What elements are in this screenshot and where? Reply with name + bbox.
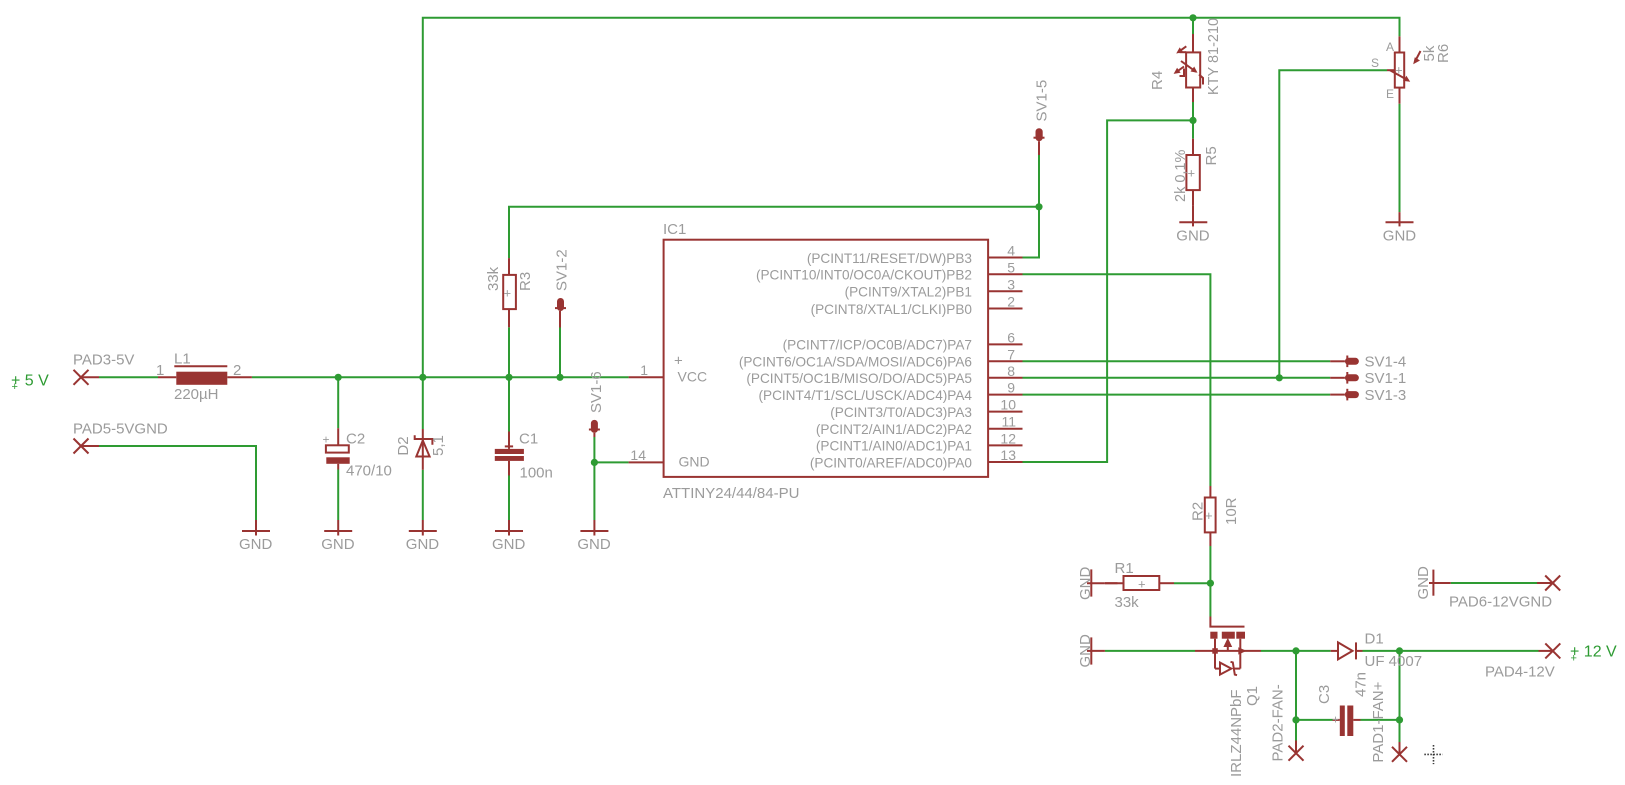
node gate junction [1207, 580, 1214, 587]
wire R4 top lead [1192, 18, 1194, 34]
svg-text:GND: GND [1077, 567, 1094, 601]
svg-text:C2: C2 [346, 431, 365, 448]
svg-text:SV1-4: SV1-4 [1365, 354, 1407, 371]
wire top +5V riser and top rail [423, 18, 1400, 378]
transistor Q1 IRLZ44NPbF n-mosfet [1195, 617, 1261, 676]
wire C2 to GND [337, 470, 339, 521]
wire C2 branch upper [337, 377, 339, 428]
ic right pin names [739, 251, 973, 471]
node SV1-5 reset junction [1035, 203, 1042, 210]
svg-text:(PCINT11/RESET/DW)PB3: (PCINT11/RESET/DW)PB3 [807, 251, 972, 266]
svg-text:IC1: IC1 [663, 221, 686, 238]
wire FAN+ branch [1399, 651, 1401, 742]
svg-text:10R: 10R [1223, 497, 1240, 525]
wire pin9 to SV1-3 [1023, 394, 1331, 396]
svg-text:100n: 100n [520, 465, 553, 482]
node R4-R5 divider junction [1189, 117, 1196, 124]
wire C3 left [1296, 719, 1333, 721]
wire R3 top to reset net [509, 207, 1039, 258]
svg-text:2: 2 [1007, 294, 1015, 310]
resistor R2 [1205, 486, 1216, 546]
svg-text:(PCINT10/INT0/OC0A/CKOUT)PB2: (PCINT10/INT0/OC0A/CKOUT)PB2 [756, 268, 972, 283]
svg-text:(PCINT2/AIN1/ADC2)PA2: (PCINT2/AIN1/ADC2)PA2 [816, 422, 972, 437]
svg-text:E: E [1386, 87, 1394, 101]
svg-text:R3: R3 [517, 272, 534, 291]
zener diode D2 [415, 429, 433, 470]
svg-text:GND: GND [321, 536, 355, 553]
wire C1 to GND [508, 476, 510, 521]
wire R3 lower lead to rail [508, 327, 510, 377]
pad PAD6-12VGND [1537, 576, 1560, 591]
inductor L1 [158, 366, 252, 385]
svg-text:8: 8 [1007, 363, 1015, 379]
svg-text:5,1: 5,1 [430, 435, 447, 456]
svg-text:PAD6-12VGND: PAD6-12VGND [1449, 594, 1552, 611]
trimmer R6 5k [1387, 36, 1421, 103]
svg-text:+: + [1395, 63, 1403, 78]
svg-text:PAD3-5V: PAD3-5V [73, 352, 134, 369]
svg-text:GND: GND [492, 536, 526, 553]
svg-text:ATTINY24/44/84-PU: ATTINY24/44/84-PU [663, 485, 799, 502]
wire PAD6 to GND [1451, 582, 1537, 584]
svg-text:PAD4-12V: PAD4-12V [1485, 664, 1555, 681]
wire D1 to PAD4 [1363, 650, 1539, 652]
wire SV1-5 pin down [1038, 155, 1040, 207]
svg-text:(PCINT9/XTAL2)PB1: (PCINT9/XTAL2)PB1 [845, 285, 972, 300]
pin 1 VCC stub [629, 376, 664, 378]
wire pin7 to SV1-4 [1023, 360, 1331, 362]
pin 8 stub [988, 377, 1022, 379]
svg-text:SV1-3: SV1-3 [1365, 387, 1407, 404]
node SV1-2 junction [556, 374, 563, 381]
pad PAD2-FAN- [1289, 741, 1304, 761]
svg-text:(PCINT1/AIN0/ADC1)PA1: (PCINT1/AIN0/ADC1)PA1 [816, 439, 972, 454]
connector pin SV1-4 arrow [1330, 356, 1359, 368]
svg-text:PAD1-FAN+: PAD1-FAN+ [1370, 681, 1387, 762]
wire SV1-6 GND down [593, 462, 595, 520]
svg-text:4: 4 [1007, 243, 1015, 259]
node SV1-6 GND junction [591, 459, 598, 466]
svg-text:3: 3 [1007, 276, 1015, 292]
wire R2 bottom to gate node [1209, 546, 1211, 583]
svg-text:SV1-5: SV1-5 [1034, 80, 1051, 122]
wire drain to D1 [1261, 650, 1331, 652]
svg-text:12: 12 [1000, 430, 1016, 446]
svg-text:(PCINT7/ICP/OC0B/ADC7)PA7: (PCINT7/ICP/OC0B/ADC7)PA7 [783, 338, 972, 353]
wire PAD5 to GND [99, 446, 256, 520]
svg-text:KTY 81-210: KTY 81-210 [1206, 18, 1222, 95]
ground GND R5 [1179, 206, 1207, 227]
wire pin13 ADC0 net [1023, 120, 1194, 462]
node R3 junction [505, 374, 512, 381]
thermistor R4 KTY 81-210 [1174, 34, 1203, 102]
svg-text:(PCINT8/XTAL1/CLKI)PB0: (PCINT8/XTAL1/CLKI)PB0 [811, 302, 973, 317]
svg-text:+: + [504, 286, 512, 301]
svg-text:(PCINT5/OC1B/MISO/DO/ADC5)PA5: (PCINT5/OC1B/MISO/DO/ADC5)PA5 [746, 371, 972, 386]
pad PAD5-5VGND [74, 439, 100, 454]
connector pin SV1-5 [1034, 128, 1045, 155]
svg-text:GND: GND [1077, 634, 1094, 668]
ground GND pad6 rotated [1429, 570, 1451, 596]
svg-text:R2: R2 [1190, 502, 1207, 521]
svg-text:33k: 33k [1115, 594, 1140, 611]
svg-text:1: 1 [156, 362, 164, 379]
svg-text:C3: C3 [1316, 685, 1333, 704]
svg-text:220µH: 220µH [174, 386, 219, 403]
svg-text:6: 6 [1007, 329, 1015, 345]
wire SV1-2 to rail [559, 328, 561, 378]
wire source GND to Q1 [1105, 650, 1195, 652]
svg-text:2: 2 [233, 362, 241, 379]
pad PAD3-5V [74, 370, 100, 385]
svg-text:14: 14 [630, 447, 646, 463]
wire +5V rail left segment [99, 376, 158, 378]
svg-text:11: 11 [1001, 414, 1016, 430]
node D2 junction [419, 374, 426, 381]
svg-text:GND: GND [1415, 566, 1432, 600]
pin 5 stub [988, 273, 1022, 275]
ground GND pad5 [242, 520, 270, 536]
node wiper SV1-1 junction [1276, 374, 1283, 381]
svg-text:VCC: VCC [678, 369, 708, 385]
wire +5V rail main segment [252, 376, 629, 378]
wire gate node down [1209, 583, 1211, 616]
svg-text:UF 4007: UF 4007 [1365, 653, 1423, 670]
connector pin SV1-1 arrow [1330, 372, 1359, 384]
wire R6 wiper net riser [1279, 70, 1387, 378]
svg-text:470/10: 470/10 [346, 463, 392, 480]
ground GND C1 [495, 520, 523, 536]
node FAN+ junction [1396, 647, 1403, 654]
svg-text:IRLZ44NPbF: IRLZ44NPbF [1228, 689, 1245, 777]
svg-text:S: S [1371, 56, 1379, 70]
svg-text:(PCINT6/OC1A/SDA/MOSI/ADC6)PA6: (PCINT6/OC1A/SDA/MOSI/ADC6)PA6 [739, 355, 972, 370]
ground GND SV1-6 [580, 520, 608, 536]
wire pin5 PWM net to R2 [1023, 274, 1211, 486]
wire FAN- branch [1295, 651, 1297, 741]
node C3 right junction [1396, 716, 1403, 723]
svg-text:+: + [1571, 653, 1577, 665]
svg-text:R5: R5 [1203, 146, 1220, 165]
pin 7 stub [988, 360, 1022, 362]
pad PAD1-FAN+ [1392, 742, 1407, 762]
svg-text:A: A [1386, 40, 1394, 54]
wire R1 right to gate node [1174, 582, 1210, 584]
capacitor C2 [323, 428, 350, 469]
ic right pin numbers [1000, 243, 1016, 464]
svg-text:+: + [12, 381, 18, 393]
svg-text:+: + [1332, 713, 1339, 727]
svg-text:(PCINT3/T0/ADC3)PA3: (PCINT3/T0/ADC3)PA3 [830, 405, 972, 420]
wire divider node to R5 [1192, 120, 1194, 138]
pin 12 stub [988, 444, 1022, 446]
ground GND R6 [1386, 212, 1414, 226]
pad PAD4-12V [1539, 643, 1561, 658]
pin 2 stub [988, 308, 1022, 310]
svg-text:(PCINT4/T1/SCL/USCK/ADC4)PA4: (PCINT4/T1/SCL/USCK/ADC4)PA4 [758, 388, 972, 403]
wire pin8 to SV1-1 [1023, 377, 1331, 379]
diode D1 UF 4007 [1331, 642, 1363, 659]
capacitor C1 [495, 432, 524, 476]
svg-text:L1: L1 [174, 351, 191, 368]
ground GND C2 [324, 520, 352, 536]
svg-text:GND: GND [1176, 227, 1210, 244]
wire GND node to pin14 [594, 461, 628, 463]
svg-text:R1: R1 [1115, 560, 1134, 577]
capacitor C3 [1332, 706, 1361, 737]
wire D2 to GND [422, 470, 424, 520]
pin 9 stub [988, 394, 1022, 396]
svg-text:SV1-2: SV1-2 [554, 249, 571, 291]
svg-text:10: 10 [1000, 397, 1016, 413]
svg-text:SV1-6: SV1-6 [588, 371, 605, 413]
pin 14 GND stub [629, 461, 664, 463]
ground GND R1 rotated [1087, 569, 1105, 596]
svg-text:R4: R4 [1149, 71, 1166, 90]
connector pin SV1-2 [555, 298, 566, 328]
node C2 junction [335, 374, 342, 381]
resistor R5 [1186, 139, 1199, 206]
svg-text:GND: GND [577, 536, 611, 553]
wire SV1-6 stem to GND node [593, 437, 595, 462]
svg-text:+: + [1138, 577, 1146, 592]
wire R1 left to GND [1105, 582, 1118, 584]
wire D2 branch upper [422, 377, 424, 429]
svg-text:(PCINT0/AREF/ADC0)PA0: (PCINT0/AREF/ADC0)PA0 [810, 455, 973, 470]
svg-text:C1: C1 [519, 431, 538, 448]
pin 10 stub [988, 411, 1022, 413]
node drain FAN- junction [1292, 647, 1299, 654]
resistor R3 [503, 258, 516, 327]
svg-text:+: + [323, 433, 330, 447]
ground GND D2 [409, 520, 437, 536]
svg-text:SV1-1: SV1-1 [1365, 370, 1407, 387]
svg-text:D2: D2 [395, 436, 412, 455]
svg-text:2k 0,1%: 2k 0,1% [1173, 150, 1189, 202]
svg-text:GND: GND [406, 536, 440, 553]
pin 13 stub [988, 461, 1022, 463]
IC U1 ATTINY24/44/84-PU box [629, 240, 1023, 477]
svg-text:GND: GND [239, 536, 273, 553]
pin 6 stub [988, 343, 1022, 345]
svg-text:+: + [674, 353, 683, 370]
svg-text:13: 13 [1000, 447, 1016, 463]
pin 4 stub [988, 257, 1022, 259]
svg-text:9: 9 [1007, 380, 1015, 396]
pin 3 stub [988, 290, 1022, 292]
pin 11 stub [988, 428, 1022, 430]
svg-text:Q1: Q1 [1244, 686, 1261, 706]
svg-text:47n: 47n [1353, 672, 1370, 697]
wire R6 bottom to GND [1399, 104, 1401, 212]
wire R4 bottom to divider node [1192, 102, 1194, 120]
connector pin SV1-3 arrow [1330, 389, 1359, 401]
ground GND Q1 source rotated [1087, 637, 1105, 664]
svg-text:D1: D1 [1365, 631, 1384, 648]
svg-text:R6: R6 [1435, 44, 1452, 63]
svg-text:GND: GND [679, 454, 710, 470]
wire reset net down to pin4 [1023, 207, 1040, 258]
node top rail R4 junction [1189, 14, 1196, 21]
svg-text:GND: GND [1383, 227, 1417, 244]
svg-text:+ 12 V: + 12 V [1570, 644, 1617, 661]
svg-text:PAD2-FAN-: PAD2-FAN- [1270, 684, 1287, 761]
connector pin SV1-6 [589, 420, 600, 437]
svg-text:1: 1 [640, 362, 648, 378]
svg-text:7: 7 [1007, 346, 1015, 362]
svg-text:33k: 33k [485, 266, 502, 291]
cursor crosshair [1424, 745, 1442, 764]
resistor R1 [1105, 576, 1174, 592]
wire C3 right [1361, 719, 1400, 721]
svg-text:PAD5-5VGND: PAD5-5VGND [73, 421, 168, 438]
wire C1 branch upper [508, 377, 510, 431]
svg-text:5: 5 [1007, 259, 1015, 275]
node C3 left junction [1292, 716, 1299, 723]
